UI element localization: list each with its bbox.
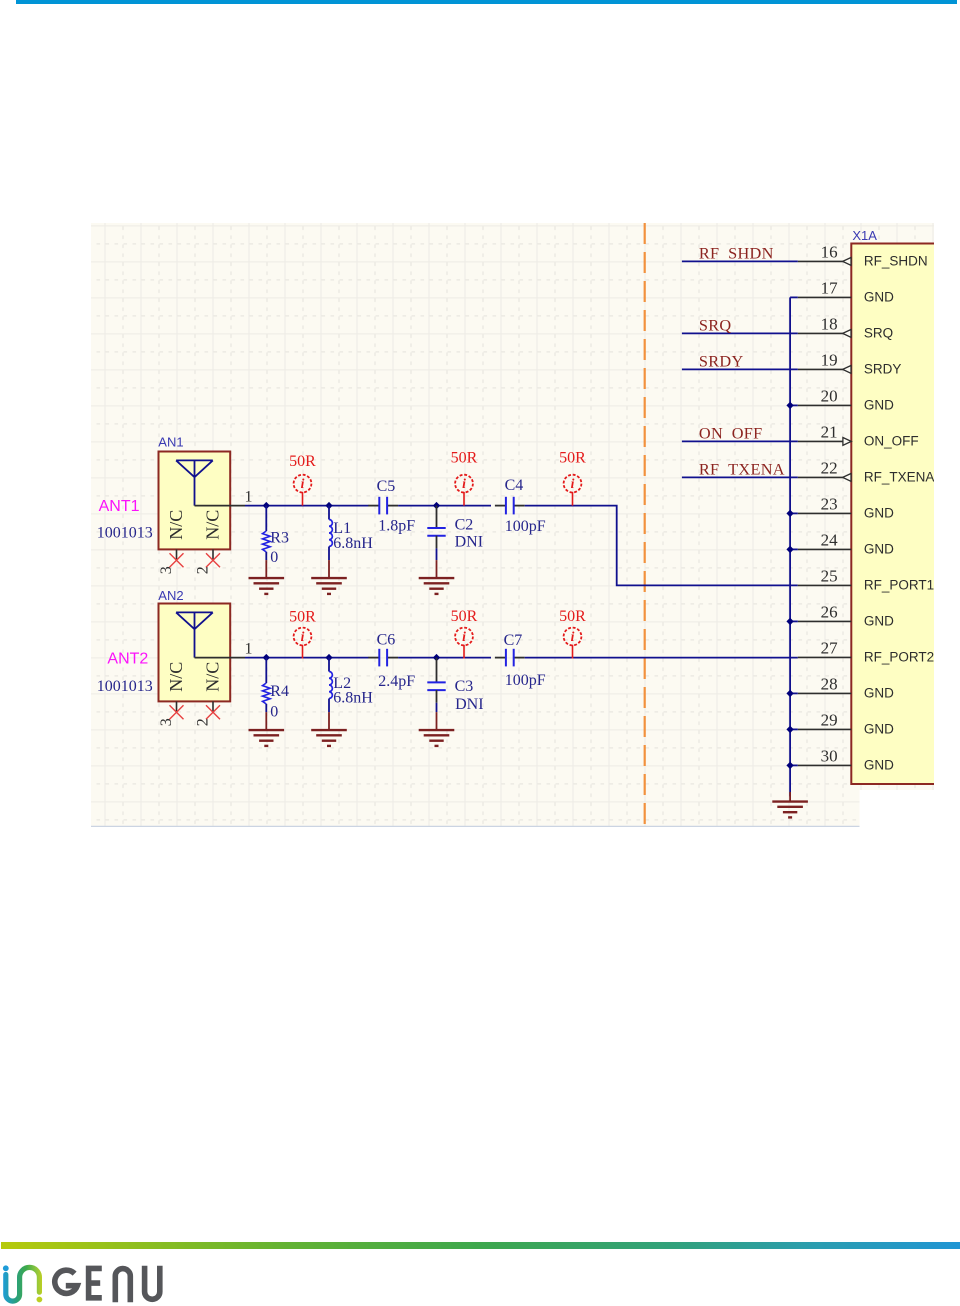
ground (L1) — [311, 560, 347, 594]
value DNI (C2) — [455, 534, 483, 551]
pin name GND — [864, 758, 894, 773]
pin name GND — [864, 506, 894, 521]
test point 50R (row2 left) — [289, 608, 316, 658]
junction GND bus pin 23 — [786, 510, 793, 517]
inductor L2 — [329, 658, 332, 713]
wire GND bus stub to pin 23 — [790, 512, 798, 514]
wire net RF_TXENA — [682, 476, 798, 478]
capacitor C3 — [427, 658, 445, 713]
pin 30 GND of X1A — [798, 764, 852, 766]
pin number 22 — [821, 459, 838, 478]
svg-text:18: 18 — [821, 315, 838, 334]
svg-text:RF_SHDN: RF_SHDN — [864, 254, 928, 269]
svg-text:3: 3 — [158, 566, 175, 574]
capacitor C4 — [495, 497, 525, 515]
pin number 3 — [158, 718, 175, 726]
label R3 — [270, 530, 289, 547]
pin 24 GND of X1A — [798, 548, 852, 550]
resistor R4 — [263, 658, 271, 713]
pin name ON_OFF — [864, 434, 919, 449]
svg-text:GND: GND — [864, 758, 894, 773]
svg-text:19: 19 — [821, 351, 838, 370]
value 6.8nH (L2) — [333, 689, 373, 706]
wire GND bus stub to pin 28 — [790, 692, 798, 694]
pin name RF_SHDN — [864, 254, 928, 269]
pin number 30 — [821, 747, 838, 766]
svg-text:50R: 50R — [559, 608, 586, 625]
svg-text:100pF: 100pF — [505, 518, 546, 535]
svg-text:RF_TXENA: RF_TXENA — [864, 470, 934, 485]
net label RF_TXENA — [699, 460, 785, 479]
pin number 26 — [821, 603, 838, 622]
value 100pF — [505, 518, 546, 535]
svg-text:50R: 50R — [451, 449, 478, 466]
label L2 — [333, 675, 351, 692]
ground (C2) — [419, 560, 455, 594]
ground (X1A bus) — [772, 792, 808, 817]
pin 19 SRDY of X1A — [798, 366, 852, 374]
pin 2 of AN2 (no-connect) — [206, 701, 220, 719]
wire GND bus stub to pin 30 — [790, 764, 798, 766]
svg-text:i: i — [301, 476, 305, 491]
pin number 1 — [245, 641, 253, 658]
pin name GND — [864, 542, 894, 557]
net label SRQ — [699, 316, 732, 335]
svg-text:SRQ: SRQ — [864, 326, 893, 341]
pin 16 RF_SHDN of X1A — [798, 258, 852, 266]
pin number 17 — [821, 279, 839, 298]
capacitor C2 — [427, 506, 445, 560]
svg-text:1001013: 1001013 — [97, 525, 153, 542]
svg-text:C3: C3 — [455, 678, 474, 695]
junction GND bus pin 29 — [786, 726, 793, 733]
wire net SRQ — [682, 332, 798, 334]
designator AN1 — [158, 435, 183, 450]
pin 28 GND of X1A — [798, 692, 852, 694]
svg-text:2: 2 — [194, 566, 211, 574]
wire C2 node to C4 — [437, 505, 492, 507]
pin number 1 — [245, 489, 253, 506]
junction R3 node — [263, 502, 270, 509]
svg-text:X1A: X1A — [852, 228, 877, 243]
ground (R4) — [249, 712, 285, 746]
ground (L2) — [311, 712, 347, 746]
capacitor C5 — [368, 497, 398, 515]
pin number 2 — [194, 718, 211, 726]
junction R4 node — [263, 654, 270, 661]
svg-text:N/C: N/C — [166, 662, 186, 692]
pin number 28 — [821, 675, 838, 694]
wire GND bus stub to pin 20 — [790, 404, 798, 406]
junction GND bus pin 20 — [786, 402, 793, 409]
pin number 20 — [821, 387, 838, 406]
value 0 (R3) — [270, 549, 278, 566]
pin 1 of AN1 — [195, 505, 246, 507]
svg-text:i: i — [301, 629, 305, 644]
svg-text:AN1: AN1 — [158, 435, 183, 450]
svg-text:RF_PORT2: RF_PORT2 — [864, 650, 934, 665]
wire AN1 pin1 to R3 node — [245, 505, 266, 507]
svg-text:ANT1: ANT1 — [99, 498, 140, 515]
pin number 16 — [821, 243, 838, 262]
svg-text:DNI: DNI — [455, 534, 483, 551]
svg-text:50R: 50R — [289, 608, 316, 625]
label C5 — [377, 478, 396, 495]
pin number 2 — [194, 566, 211, 574]
net label ANT1 — [99, 498, 140, 515]
svg-text:29: 29 — [821, 711, 838, 730]
svg-text:AN2: AN2 — [158, 588, 183, 603]
label L1 — [333, 520, 351, 537]
value DNI (C3) — [455, 696, 483, 713]
svg-text:N/C: N/C — [203, 662, 223, 692]
N/C label pin 2 — [203, 662, 223, 692]
pin 22 RF_TXENA of X1A — [798, 474, 852, 482]
svg-text:20: 20 — [821, 387, 838, 406]
pin name RF_PORT2 — [864, 650, 934, 665]
svg-text:6.8nH: 6.8nH — [333, 535, 373, 552]
net label RF_SHDN — [699, 244, 774, 263]
pin 18 SRQ of X1A — [798, 330, 852, 338]
partition dashed line — [644, 223, 646, 827]
inductor L1 — [329, 506, 332, 560]
svg-text:i: i — [571, 629, 575, 644]
svg-text:RF_PORT1: RF_PORT1 — [864, 578, 934, 593]
value 100pF (C7) — [505, 672, 546, 689]
wire GND bus to pin 17 — [790, 296, 798, 298]
pin 26 GND of X1A — [798, 620, 852, 622]
pin name GND — [864, 290, 894, 305]
pin 3 of AN1 (no-connect) — [170, 549, 184, 567]
svg-text:22: 22 — [821, 459, 838, 478]
test point 50R (row2 middle) — [451, 608, 478, 659]
pin name SRQ — [864, 326, 893, 341]
pin number 29 — [821, 711, 838, 730]
test point 50R (row1 left) — [289, 453, 316, 506]
pin 23 GND of X1A — [798, 512, 852, 514]
svg-text:1: 1 — [245, 489, 253, 506]
net label ON_OFF — [699, 424, 763, 443]
svg-text:R4: R4 — [270, 683, 289, 700]
capacitor C6 — [368, 649, 398, 667]
pin 3 of AN2 (no-connect) — [170, 701, 184, 719]
pin number 27 — [821, 639, 839, 658]
designator X1A — [852, 228, 877, 243]
svg-text:27: 27 — [821, 639, 839, 658]
pin number 19 — [821, 351, 838, 370]
pin 1 of AN2 — [195, 657, 246, 659]
wire GND bus stub to pin 29 — [790, 728, 798, 730]
svg-text:3: 3 — [158, 718, 175, 726]
pin 21 ON_OFF of X1A — [798, 438, 852, 446]
svg-text:17: 17 — [821, 279, 839, 298]
svg-text:100pF: 100pF — [505, 672, 546, 689]
svg-text:1: 1 — [245, 641, 253, 658]
value 0 (R4) — [270, 703, 278, 720]
value 1001013 — [97, 678, 153, 695]
value 6.8nH (L1) — [333, 535, 373, 552]
junction C3 node — [433, 654, 440, 661]
svg-text:GND: GND — [864, 506, 894, 521]
value 1001013 — [97, 525, 153, 542]
pin name GND — [864, 614, 894, 629]
svg-text:i: i — [462, 476, 466, 491]
value 2.4pF — [378, 673, 415, 690]
antenna AN2 body — [159, 604, 231, 702]
value 1.8pF — [378, 518, 415, 535]
label C7 — [504, 632, 523, 649]
svg-text:2.4pF: 2.4pF — [378, 673, 415, 690]
N/C label pin 2 — [203, 510, 223, 540]
svg-text:24: 24 — [821, 531, 839, 550]
wire net RF_SHDN — [682, 260, 798, 262]
junction GND bus pin 26 — [786, 618, 793, 625]
wire net ON_OFF — [682, 440, 798, 442]
label C2 — [455, 517, 474, 534]
svg-text:50R: 50R — [451, 608, 478, 625]
svg-text:i: i — [462, 629, 466, 644]
svg-text:SRQ: SRQ — [699, 316, 732, 335]
svg-text:GND: GND — [864, 290, 894, 305]
pin number 25 — [821, 567, 838, 586]
pin number 21 — [821, 423, 838, 442]
pin number 24 — [821, 531, 839, 550]
svg-text:ON_OFF: ON_OFF — [864, 434, 919, 449]
wire R3 node to L1 node — [266, 505, 329, 507]
wire GND bus vertical — [789, 297, 791, 796]
svg-text:6.8nH: 6.8nH — [333, 689, 373, 706]
top header bar — [16, 0, 957, 4]
svg-text:RF SHDN: RF SHDN — [699, 244, 774, 263]
label C4 — [505, 477, 524, 494]
pin 25 RF_PORT1 of X1A — [798, 584, 852, 586]
connector X1A body — [851, 244, 937, 785]
pin number 18 — [821, 315, 838, 334]
svg-text:50R: 50R — [559, 449, 586, 466]
test point 50R (row1 middle) — [451, 449, 478, 505]
schematic panel — [91, 223, 934, 827]
svg-text:ON OFF: ON OFF — [699, 424, 763, 443]
wire net SRDY — [682, 368, 798, 370]
label R4 — [270, 683, 289, 700]
wire C4 to RF_PORT1 pin 25 — [525, 506, 798, 586]
svg-text:RF TXENA: RF TXENA — [699, 460, 785, 479]
svg-text:GND: GND — [864, 614, 894, 629]
pin name SRDY — [864, 362, 902, 377]
antenna AN2 symbol — [176, 612, 213, 657]
wire GND bus stub to pin 26 — [790, 620, 798, 622]
wire GND bus stub to pin 24 — [790, 548, 798, 550]
label C6 — [377, 632, 396, 649]
svg-text:C2: C2 — [455, 517, 474, 534]
antenna AN1 symbol — [176, 460, 213, 505]
wire C6 to C3 node — [398, 657, 436, 659]
svg-text:GND: GND — [864, 722, 894, 737]
pin name GND — [864, 398, 894, 413]
designator AN2 — [158, 588, 183, 603]
svg-text:1.8pF: 1.8pF — [378, 518, 415, 535]
svg-text:0: 0 — [270, 549, 278, 566]
svg-text:C6: C6 — [377, 632, 396, 649]
resistor R3 — [263, 506, 271, 560]
svg-text:16: 16 — [821, 243, 838, 262]
pin number 23 — [821, 495, 838, 514]
pin name RF_PORT1 — [864, 578, 934, 593]
wire L2 node to C6 — [329, 657, 369, 659]
wire C7 to RF_PORT2 pin 27 — [525, 657, 798, 659]
svg-text:0: 0 — [270, 703, 278, 720]
svg-text:28: 28 — [821, 675, 838, 694]
junction L2 node — [325, 654, 332, 661]
svg-text:30: 30 — [821, 747, 838, 766]
wire C5 to C2 node — [398, 505, 436, 507]
svg-text:i: i — [571, 476, 575, 491]
svg-text:R3: R3 — [270, 530, 289, 547]
svg-text:SRDY: SRDY — [699, 352, 744, 371]
svg-text:C4: C4 — [505, 477, 524, 494]
pin number 3 — [158, 566, 175, 574]
label C3 — [455, 678, 474, 695]
wire R4 node to L2 node — [266, 657, 329, 659]
svg-text:N/C: N/C — [166, 510, 186, 540]
svg-text:DNI: DNI — [455, 696, 483, 713]
junction C2 node — [433, 502, 440, 509]
junction GND bus pin 28 — [786, 690, 793, 697]
test point 50R (row2 right) — [559, 608, 586, 659]
pin name RF_TXENA — [864, 470, 935, 485]
svg-text:50R: 50R — [289, 453, 316, 470]
ground (R3) — [249, 560, 285, 594]
svg-text:GND: GND — [864, 686, 894, 701]
ground (C3) — [419, 712, 455, 746]
pin 20 GND of X1A — [798, 404, 852, 406]
pin 29 GND of X1A — [798, 728, 852, 730]
Ingenu logo — [0, 1258, 180, 1306]
wire C3 node to C7 — [437, 657, 492, 659]
pin 17 GND of X1A — [798, 296, 852, 298]
pin name GND — [864, 686, 894, 701]
pin 2 of AN1 (no-connect) — [206, 549, 220, 567]
wire AN2 pin1 to R4 node — [245, 657, 266, 659]
svg-text:C5: C5 — [377, 478, 396, 495]
junction GND bus pin 30 — [786, 762, 793, 769]
svg-text:SRDY: SRDY — [864, 362, 902, 377]
net label ANT2 — [107, 651, 148, 668]
svg-text:GND: GND — [864, 542, 894, 557]
svg-text:25: 25 — [821, 567, 838, 586]
pin name GND — [864, 722, 894, 737]
svg-text:GND: GND — [864, 398, 894, 413]
net label SRDY — [699, 352, 744, 371]
antenna AN1 body — [159, 452, 231, 550]
footer gradient bar — [1, 1242, 960, 1250]
junction L1 node — [325, 502, 332, 509]
pin 27 RF_PORT2 of X1A — [798, 656, 852, 658]
N/C label pin 3 — [166, 510, 186, 540]
svg-text:C7: C7 — [504, 632, 523, 649]
svg-text:21: 21 — [821, 423, 838, 442]
junction GND bus pin 24 — [786, 546, 793, 553]
svg-text:N/C: N/C — [203, 510, 223, 540]
svg-text:26: 26 — [821, 603, 838, 622]
capacitor C7 — [495, 649, 525, 667]
test point 50R (row1 right) — [559, 449, 586, 505]
svg-text:1001013: 1001013 — [97, 678, 153, 695]
N/C label pin 3 — [166, 662, 186, 692]
wire L1 node to C5 — [329, 505, 369, 507]
svg-text:2: 2 — [194, 718, 211, 726]
svg-text:ANT2: ANT2 — [107, 651, 148, 668]
svg-text:23: 23 — [821, 495, 838, 514]
